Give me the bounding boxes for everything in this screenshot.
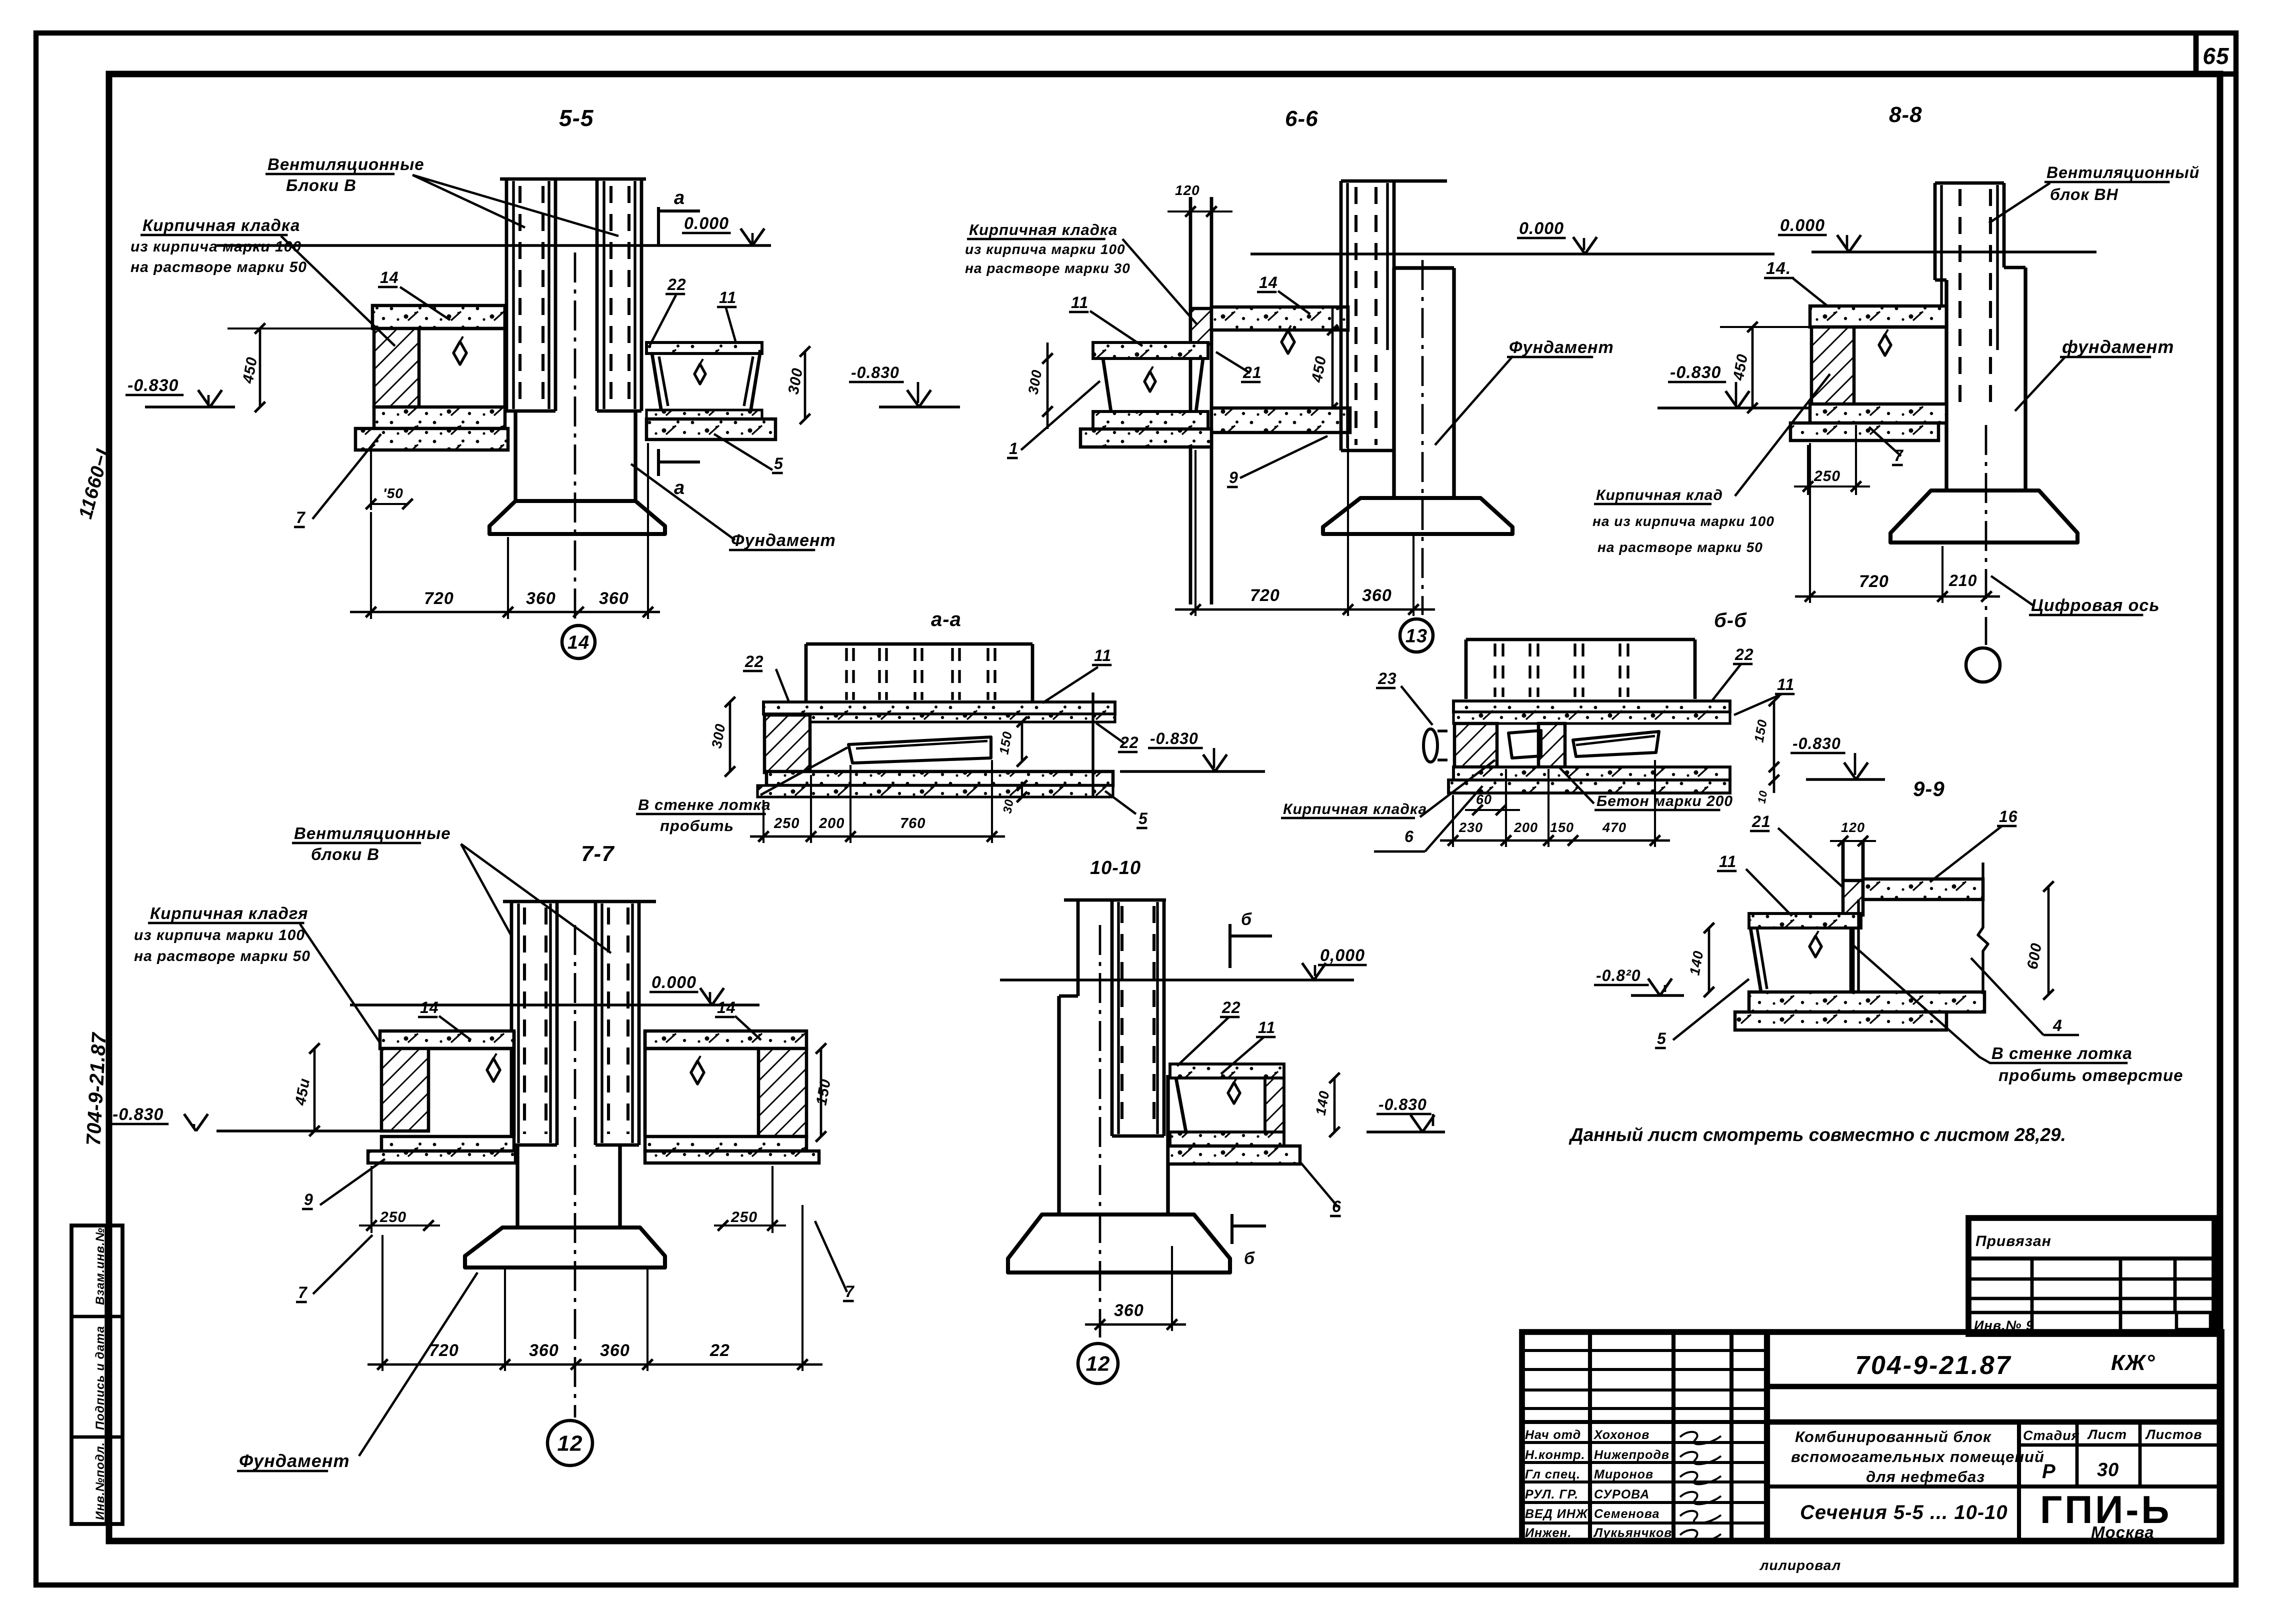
b-b under slab band 11 [1453, 712, 1730, 723]
svg-text:-0.830: -0.830 [1792, 734, 1841, 752]
10-10 dim 360 [1085, 1323, 1186, 1326]
svg-text:360: 360 [599, 589, 629, 608]
5-5 vent block column top [500, 177, 646, 181]
10-10 trough base plate [1168, 1146, 1300, 1164]
signatures scribbles [1680, 1432, 1721, 1444]
svg-text:360: 360 [1114, 1301, 1144, 1320]
title block name rows [1522, 1441, 1767, 1444]
svg-text:250: 250 [379, 1209, 406, 1225]
8-8 axis circle [1966, 648, 2000, 682]
svg-text:720: 720 [429, 1341, 459, 1360]
7-7 right wall top slab [645, 1031, 806, 1048]
6-6 axis circle 13 [1400, 619, 1433, 652]
5-5 diamond mark right [694, 364, 705, 384]
svg-text:фундамент: фундамент [2062, 336, 2174, 357]
5-5 left wall base plate [355, 428, 508, 450]
7-7 footing [465, 1227, 665, 1267]
svg-text:0.000: 0.000 [651, 973, 696, 992]
8-8 left wall bottom slab [1810, 404, 1946, 423]
svg-text:вспомогательных помещений: вспомогательных помещений [1791, 1448, 2044, 1465]
svg-text:В стенке лотка: В стенке лотка [638, 796, 771, 813]
svg-text:Листов: Листов [2145, 1427, 2202, 1442]
7-7 ground line [350, 1003, 759, 1006]
svg-text:Кирпичная кладка: Кирпичная кладка [1283, 801, 1427, 817]
svg-text:10-10: 10-10 [1090, 857, 1141, 878]
svg-text:12: 12 [557, 1431, 583, 1455]
9-9 left trough lid [1749, 913, 1861, 928]
a-a dim 300 left [729, 702, 731, 771]
a-a bottom slab [766, 771, 1113, 785]
10-10 trough walls [1176, 1078, 1186, 1132]
svg-text:на растворе марки 50: на растворе марки 50 [134, 948, 310, 964]
b-b left trough [1508, 730, 1541, 758]
svg-text:В стенке лотка: В стенке лотка [1991, 1044, 2132, 1062]
svg-text:22: 22 [709, 1341, 730, 1360]
6-6 footing [1323, 498, 1512, 534]
7-7 diamond left [487, 1058, 500, 1081]
svg-text:30: 30 [2097, 1459, 2119, 1480]
svg-text:360: 360 [1362, 586, 1392, 605]
7-7 dim 450 right [820, 1048, 822, 1136]
svg-text:-0.830: -0.830 [1670, 363, 1721, 382]
svg-text:9: 9 [1229, 468, 1238, 486]
a-a right end vertical [1091, 692, 1094, 797]
5-5 right trough base plate [646, 419, 775, 439]
svg-text:на растворе марки 50: на растворе марки 50 [130, 259, 307, 275]
svg-text:65: 65 [2202, 43, 2229, 69]
10-10 footing [1008, 1214, 1230, 1272]
svg-text:Миронов: Миронов [1594, 1467, 1653, 1481]
svg-text:5: 5 [774, 454, 783, 472]
6-6 left trough lid [1093, 342, 1208, 358]
svg-text:720: 720 [1859, 572, 1889, 591]
a-a trough cavity [848, 737, 991, 763]
10-10 trough lid [1170, 1064, 1284, 1078]
svg-text:из кирпича марки 100: из кирпича марки 100 [965, 241, 1125, 257]
svg-text:пробить отверстие: пробить отверстие [1998, 1066, 2183, 1084]
5-5 leader ventilation blocks [412, 175, 525, 227]
svg-text:на из кирпича марки 100: на из кирпича марки 100 [1592, 513, 1774, 529]
6-6 top slab [1211, 307, 1348, 330]
svg-text:Лист: Лист [2087, 1427, 2127, 1442]
svg-text:360: 360 [529, 1341, 559, 1360]
9-9 bottom slab [1749, 992, 1984, 1012]
5-5 vent block left channel [505, 179, 508, 411]
8-8 left wall top slab [1810, 306, 1946, 327]
svg-text:СУРОВА: СУРОВА [1594, 1487, 1649, 1501]
svg-text:4: 4 [2052, 1016, 2062, 1034]
10-10 diamond [1228, 1082, 1240, 1103]
5-5 right trough bottom slab [646, 410, 762, 419]
svg-text:Н.контр.: Н.контр. [1525, 1448, 1585, 1462]
6-6 bottom dims [1175, 608, 1435, 611]
8-8 foundation column [1935, 278, 1946, 282]
svg-text:Вентиляционный: Вентиляционный [2046, 163, 2199, 181]
8-8 footing [1890, 490, 2077, 542]
svg-text:Взам.инв.№: Взам.инв.№ [93, 1227, 107, 1305]
9-9 diamond [1809, 936, 1821, 957]
svg-text:14: 14 [380, 268, 399, 286]
svg-text:Кирпичная кладгя: Кирпичная кладгя [150, 904, 308, 922]
6-6 dim 450 [1331, 307, 1334, 408]
svg-text:5-5: 5-5 [559, 105, 594, 131]
5-5 dim 300 right [804, 351, 806, 419]
6-6 left trough walls [1103, 358, 1111, 411]
7-7 diamond right [691, 1061, 704, 1084]
margin stamp table [71, 1225, 122, 1524]
8-8 dim 450 [1720, 326, 1810, 328]
svg-text:Хохонов: Хохонов [1593, 1428, 1649, 1442]
svg-text:-0.830: -0.830 [112, 1105, 163, 1124]
svg-text:7-7: 7-7 [581, 841, 615, 866]
a-a under slab band 11 [810, 714, 1115, 722]
b-b left masonry block [1454, 723, 1497, 767]
5-5 section cut a bottom [657, 449, 660, 476]
b-b base strip [1448, 780, 1730, 793]
svg-text:11: 11 [1777, 675, 1794, 693]
6-6 left trough base plate [1080, 429, 1211, 447]
svg-text:Вентиляционные: Вентиляционные [267, 155, 424, 173]
10-10 section cut b bottom [1230, 1214, 1233, 1244]
svg-text:21: 21 [1751, 812, 1771, 830]
svg-text:Данный лист смотреть совме: Данный лист смотреть совместно с листом … [1568, 1124, 2066, 1145]
svg-text:11: 11 [719, 288, 736, 306]
svg-text:б-б: б-б [1714, 609, 1747, 631]
6-6 narrow brick wall [1189, 197, 1192, 604]
svg-text:из кирпича марки 100: из кирпича марки 100 [130, 238, 301, 255]
10-10 axis circle 12 [1078, 1343, 1118, 1383]
svg-text:11: 11 [1719, 852, 1736, 870]
6-6 vent column [1341, 179, 1447, 183]
7-7 left wall base plate [368, 1151, 515, 1163]
b-b pipe opening [1423, 729, 1437, 762]
svg-text:23: 23 [1377, 669, 1397, 687]
5-5 left wall masonry hatch [374, 328, 419, 407]
svg-text:1: 1 [1009, 439, 1018, 457]
svg-text:6: 6 [1404, 827, 1414, 845]
svg-text:12: 12 [1086, 1352, 1110, 1375]
5-5 ground level line 0.000 [216, 244, 771, 246]
svg-text:14: 14 [1259, 273, 1278, 291]
8-8 vent column [1935, 181, 2004, 185]
privyazan box [1968, 1218, 2214, 1334]
svg-text:200: 200 [1513, 820, 1538, 835]
b-b floor slab band 22 [1453, 701, 1730, 712]
a-a left masonry block [764, 715, 810, 772]
svg-text:Москва: Москва [2091, 1523, 2154, 1541]
title block verticals left table [1588, 1332, 1592, 1541]
svg-text:7: 7 [298, 1283, 308, 1301]
10-10 ground line [1000, 978, 1354, 981]
svg-text:Цифровая ось: Цифровая ось [2031, 596, 2160, 615]
svg-text:760: 760 [900, 815, 925, 831]
b-b vent block plan [1466, 638, 1695, 641]
svg-text:Гл спец.: Гл спец. [1525, 1467, 1580, 1481]
svg-text:Лукьянчков: Лукьянчков [1593, 1526, 1672, 1540]
title block upper rows [1522, 1349, 1767, 1352]
7-7 dim 450 left [313, 1048, 316, 1131]
svg-text:22: 22 [667, 275, 686, 293]
svg-text:ВЕД ИНЖ: ВЕД ИНЖ [1525, 1507, 1588, 1521]
svg-text:360: 360 [600, 1341, 630, 1360]
a-a dim 150-30 right [1021, 722, 1023, 761]
page number box [2193, 33, 2199, 74]
svg-text:пробить: пробить [660, 817, 734, 834]
svg-text:250: 250 [773, 815, 799, 831]
svg-text:120: 120 [1841, 820, 1865, 835]
b-b middle masonry pier [1538, 723, 1565, 767]
6-6 left trough bottom slab [1093, 411, 1208, 429]
svg-text:60: 60 [1476, 792, 1492, 807]
7-7 vent columns top [503, 900, 656, 903]
6-6 axis [1421, 260, 1424, 615]
svg-text:a: a [674, 187, 685, 208]
svg-text:на растворе марки 50: на растворе марки 50 [1597, 539, 1763, 555]
svg-text:11: 11 [1071, 293, 1088, 311]
6-6 leader brick masonry [1122, 239, 1197, 325]
6-6 dim 300 left [1046, 342, 1049, 429]
10-10 foundation column [1059, 994, 1078, 998]
7-7 right wall masonry hatch [758, 1048, 806, 1136]
5-5 left wall top slab [372, 305, 505, 328]
svg-text:Фундамент: Фундамент [1509, 338, 1614, 357]
9-9 base plate [1735, 1012, 1946, 1030]
svg-text:а-а: а-а [931, 608, 961, 630]
svg-text:720: 720 [424, 589, 454, 608]
b-b dim right 150 [1773, 701, 1775, 793]
5-5 vent block right channel [595, 179, 599, 411]
svg-text:120: 120 [1175, 182, 1200, 198]
svg-text:блок ВН: блок ВН [2050, 185, 2118, 203]
9-9 dim 600 [2047, 886, 2050, 994]
svg-text:Фундамент: Фундамент [239, 1450, 350, 1471]
7-7 right wall bottom slab [645, 1136, 806, 1151]
10-10 section cut b top [1228, 924, 1231, 968]
svg-text:-0.830: -0.830 [1150, 729, 1198, 747]
svg-text:Семенова: Семенова [1594, 1507, 1659, 1521]
8-8 bottom dims [1795, 595, 2000, 598]
9-9 wall column top [1841, 842, 1845, 880]
svg-text:14.: 14. [1766, 259, 1791, 278]
7-7 left wall top slab [380, 1031, 514, 1048]
svg-text:7: 7 [296, 508, 306, 526]
svg-text:14: 14 [420, 998, 439, 1016]
9-9 trough left wall [1750, 928, 1761, 992]
svg-text:22: 22 [1734, 645, 1754, 663]
6-6 foundation column [1392, 268, 1395, 498]
7-7 right channel [594, 901, 597, 1145]
svg-text:лилировал: лилировал [1759, 1557, 1841, 1573]
svg-text:Кирпичная кладка: Кирпичная кладка [142, 216, 300, 234]
svg-text:Привязан: Привязан [1975, 1233, 2051, 1249]
svg-text:из кирпича марки 100: из кирпича марки 100 [134, 927, 305, 943]
svg-text:250: 250 [730, 1209, 757, 1225]
svg-text:для нефтебаз: для нефтебаз [1866, 1468, 1985, 1485]
title block doc number band [1767, 1384, 2221, 1389]
svg-text:210: 210 [1948, 571, 1977, 589]
svg-text:200: 200 [818, 815, 844, 831]
5-5 right trough walls [652, 353, 661, 409]
svg-text:13: 13 [1405, 625, 1427, 646]
7-7 left wall masonry hatch [381, 1048, 428, 1131]
svg-text:22: 22 [1221, 998, 1241, 1016]
svg-text:РУЛ. ГР.: РУЛ. ГР. [1525, 1487, 1578, 1501]
svg-text:Подпись и дата: Подпись и дата [93, 1325, 107, 1430]
8-8 axis [1985, 425, 1987, 645]
8-8 diamond [1879, 334, 1891, 355]
9-9 dim 140 [1708, 928, 1710, 992]
svg-text:8-8: 8-8 [1889, 102, 1922, 127]
9-9 masonry blocklet [1843, 880, 1863, 915]
a-a floor slab band 22 [763, 702, 1115, 714]
5-5 column axis [574, 252, 576, 622]
9-9 break line right [1978, 862, 1988, 998]
svg-text:′50: ′50 [383, 485, 403, 501]
svg-text:11: 11 [1258, 1018, 1275, 1036]
svg-text:Инв.№подл.: Инв.№подл. [93, 1442, 107, 1520]
b-b bottom dims [1440, 839, 1670, 842]
svg-text:Нач отд: Нач отд [1525, 1428, 1581, 1442]
svg-text:-0.830: -0.830 [1378, 1095, 1427, 1113]
svg-text:Фундамент: Фундамент [731, 531, 836, 550]
svg-text:Блоки В: Блоки В [286, 176, 356, 194]
svg-text:5: 5 [1657, 1029, 1666, 1047]
svg-text:250: 250 [1813, 468, 1840, 484]
5-5 foundation footing [489, 501, 665, 534]
svg-text:Нижепродв: Нижепродв [1594, 1448, 1669, 1462]
svg-text:14: 14 [717, 998, 736, 1016]
5-5 left wall bottom slab [374, 407, 505, 428]
svg-text:22: 22 [744, 652, 764, 670]
7-7 left channel [510, 901, 513, 1145]
svg-text:470: 470 [1602, 820, 1626, 835]
b-b bottom slab [1453, 767, 1730, 780]
stadia list listov columns [2017, 1422, 2021, 1541]
a-a vent block plan [806, 642, 1032, 646]
10-10 axis [1099, 925, 1101, 1337]
svg-text:Кирпичная кладка: Кирпичная кладка [969, 221, 1117, 238]
6-6 ground line [1250, 252, 1774, 255]
5-5 axis circle 14 [562, 625, 595, 658]
svg-text:14: 14 [567, 632, 589, 653]
svg-text:Кирпичная клад: Кирпичная клад [1596, 487, 1723, 503]
svg-text:на растворе марки 30: на растворе марки 30 [965, 260, 1130, 276]
svg-text:-0.8²0: -0.8²0 [1596, 966, 1641, 984]
svg-text:Сечения 5-5 ... 10-10: Сечения 5-5 ... 10-10 [1800, 1501, 2008, 1523]
svg-text:0.000: 0.000 [1780, 216, 1825, 235]
svg-text:6-6: 6-6 [1285, 106, 1318, 131]
10-10 trough bottom slab [1170, 1132, 1284, 1146]
svg-text:Бетон марки 200: Бетон марки 200 [1596, 793, 1733, 809]
svg-text:9-9: 9-9 [1913, 777, 1945, 800]
svg-text:Вентиляционные: Вентиляционные [294, 824, 451, 842]
10-10 dim 140 [1333, 1078, 1336, 1132]
svg-text:Комбинированный блок: Комбинированный блок [1795, 1428, 1991, 1445]
svg-text:5: 5 [1138, 809, 1148, 827]
6-6 masonry blocklet [1190, 308, 1211, 344]
9-9 trough right wall [1849, 928, 1855, 992]
svg-text:9: 9 [304, 1190, 313, 1208]
8-8 left wall masonry hatch [1811, 327, 1854, 408]
5-5 leader brick masonry [281, 236, 395, 346]
svg-text:150: 150 [1550, 820, 1574, 835]
svg-text:21: 21 [1242, 363, 1262, 381]
10-10 vent column [1064, 898, 1166, 902]
svg-text:704-9-21.87: 704-9-21.87 [1855, 1351, 2011, 1380]
svg-text:30: 30 [1000, 798, 1016, 814]
7-7 right wall base plate [645, 1151, 819, 1163]
svg-text:б: б [1244, 1249, 1255, 1268]
6-6 bottom slab [1211, 408, 1350, 432]
svg-text:0.000: 0.000 [1519, 219, 1564, 238]
svg-text:10: 10 [1755, 789, 1769, 804]
5-5 right trough lid slab [646, 342, 762, 353]
7-7 axis [574, 925, 576, 1417]
5-5 bottom dimension line [350, 611, 660, 613]
svg-text:720: 720 [1250, 586, 1280, 605]
9-9 right ceiling slab [1863, 879, 1983, 899]
svg-text:блоки В: блоки В [311, 845, 379, 863]
svg-text:Стадия: Стадия [2023, 1428, 2080, 1443]
svg-text:0.000: 0.000 [684, 214, 729, 233]
7-7 left wall bottom slab [381, 1136, 514, 1151]
b-b right trough [1573, 731, 1659, 756]
svg-text:0,000: 0,000 [1320, 946, 1365, 965]
svg-text:Инжен.: Инжен. [1525, 1526, 1571, 1540]
5-5 diamond mark left [453, 341, 466, 364]
a-a base strip [757, 785, 1113, 797]
7-7 bottom dims [367, 1363, 822, 1366]
svg-text:360: 360 [526, 589, 556, 608]
6-6 diamond trough [1144, 371, 1155, 391]
svg-text:-0.830: -0.830 [851, 363, 899, 381]
svg-text:11: 11 [1094, 646, 1111, 664]
main title block frame [1522, 1332, 2221, 1541]
svg-text:б: б [1241, 910, 1252, 929]
8-8 ground line [1811, 250, 2096, 253]
svg-text:16: 16 [1999, 807, 2018, 825]
5-5 section cut a top [657, 207, 660, 245]
6-6 diamond [1281, 330, 1294, 353]
5-5 dim 450 left [227, 327, 372, 329]
7-7 axis circle 12 [547, 1420, 592, 1465]
svg-text:-0.830: -0.830 [127, 376, 178, 395]
svg-text:КЖ°: КЖ° [2111, 1350, 2155, 1375]
7-7 foundation column [515, 1145, 519, 1227]
a-a bottom dims [750, 835, 1005, 838]
8-8 left wall base plate [1790, 423, 1938, 440]
5-5 foundation column [513, 411, 517, 501]
svg-text:230: 230 [1458, 820, 1483, 835]
